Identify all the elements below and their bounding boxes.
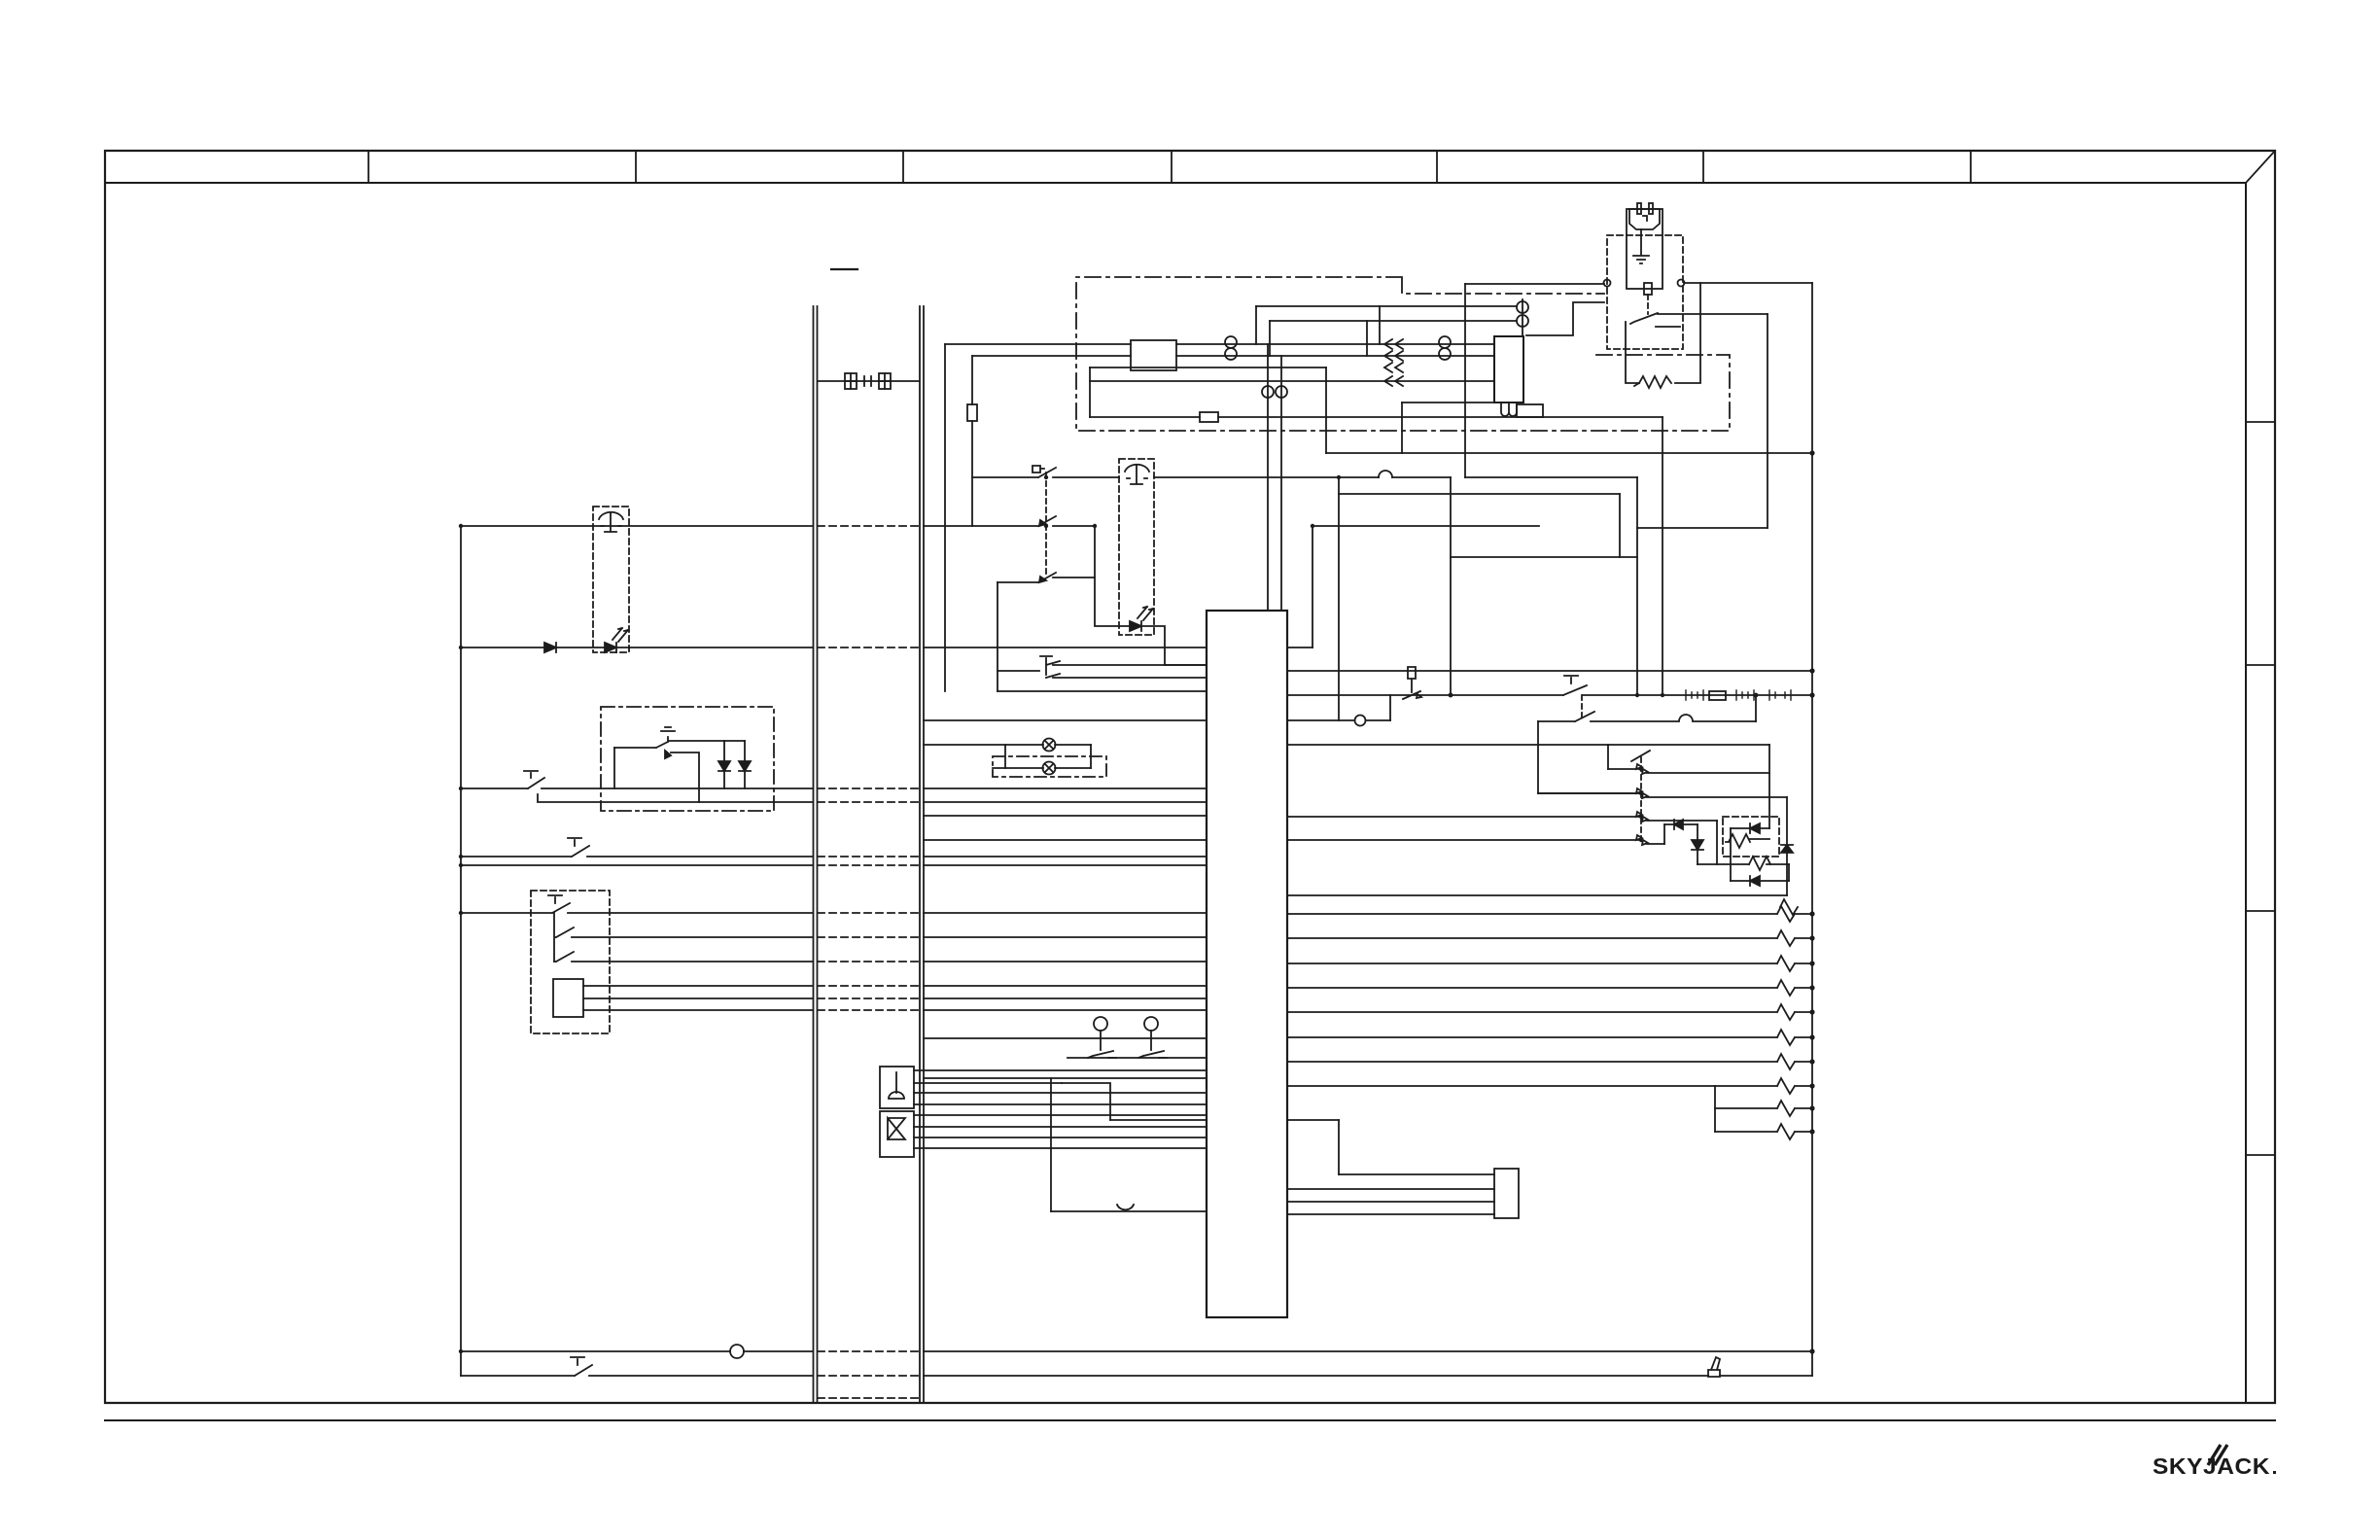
lamp circuit bottom wire [993, 767, 1091, 769]
wire net429 (fused link) [1090, 416, 1662, 418]
wire net1039 right [924, 1009, 1207, 1011]
wire dashed duct crossing y=825 [818, 801, 919, 803]
wire net921 [1287, 894, 1787, 896]
charger terminal block [1517, 404, 1543, 417]
plug prong L [1637, 203, 1641, 214]
brake switch link dashed [1581, 695, 1583, 721]
junction dot net1390 [1809, 1348, 1814, 1353]
header cell divider 5 [1436, 151, 1438, 183]
valve wire y1159 [914, 1126, 1207, 1128]
output wire y=1092 with break [1287, 1054, 1812, 1069]
wire dashed duct crossing y=939 [818, 912, 919, 914]
enable contact pair [997, 656, 1207, 678]
diode D4 (relay box) [739, 741, 751, 788]
output wire y=940 with break [1287, 906, 1812, 922]
header cell divider 2 [635, 151, 637, 183]
wire net989 right [924, 961, 1207, 962]
sensor wire y1124 [914, 1092, 1207, 1094]
riser x1377 from net491 [1338, 477, 1340, 720]
junction dot x1806 net715 [1754, 693, 1759, 698]
wire net466 [1326, 452, 1812, 454]
wire net378 [1090, 367, 1326, 368]
AC inlet feed wire y292 [1465, 283, 1604, 285]
vertical x1364 [1325, 367, 1327, 453]
ground bus (left vertical) [460, 526, 462, 1376]
motor lead y1249 [1287, 1213, 1494, 1215]
vertical feed from duct to logic (x972) [944, 344, 946, 691]
LED D2 arrows [612, 628, 628, 642]
twisted pair mark T4 [1517, 301, 1528, 313]
riser to controller (x1304) [1267, 344, 1269, 611]
wire net1039 left [583, 1009, 813, 1011]
hour meter circle on net1390 [730, 1345, 744, 1358]
wire net811 right [924, 787, 1207, 789]
ladder contact 2 [1538, 788, 1787, 798]
contact arrows [1039, 520, 1046, 582]
interlock contact bar [1656, 326, 1680, 328]
LED D2 in alarm box [605, 643, 616, 652]
wire dashed duct crossing y=964 [818, 936, 919, 938]
joystick enable wire [1067, 1057, 1207, 1059]
connector J2 [879, 373, 891, 389]
vertical x1442 [1401, 402, 1403, 453]
wire net964 right [924, 936, 1207, 938]
wire net491 to riser [1154, 476, 1451, 478]
LED D5 arrows [1137, 607, 1153, 620]
interlock wire y323 [1658, 313, 1767, 315]
wire net690 [1287, 670, 1812, 672]
flow valve bowtie symbol [888, 1118, 905, 1139]
junction dot y=991 [1809, 961, 1814, 965]
inline splice marks [864, 376, 871, 386]
diode D3 (relay box) [718, 741, 730, 788]
tilt sensor circle [1355, 716, 1366, 726]
wire dashed duct crossing y=1438 [818, 1397, 919, 1399]
limit switch LS1 on net811 [461, 771, 813, 788]
header cell divider 4 [1171, 151, 1172, 183]
footer separator rule [105, 1419, 2275, 1421]
riser x1840 [1788, 864, 1790, 881]
wire net839 left [924, 815, 1207, 817]
wire net666 right [924, 647, 1207, 648]
wire net825 left [538, 794, 813, 802]
diode D8 [1731, 823, 1769, 833]
joystick 2 [1144, 1017, 1158, 1031]
wire net573 [1451, 556, 1637, 558]
SKYJACK logo slash [2208, 1445, 2227, 1465]
switch SW3 [554, 952, 813, 962]
wire net1014 left [583, 985, 813, 987]
wire net741 to tilt sensor [1287, 719, 1390, 721]
wire net666 left [461, 647, 813, 648]
wire net939 right [924, 912, 1207, 914]
wire net816 feed [1538, 792, 1641, 794]
junction dot net690 [1809, 668, 1814, 673]
plug feed jog [1526, 302, 1604, 335]
sensor wire y1114 [914, 1082, 1062, 1084]
output wire y=1067 with break [1287, 1030, 1812, 1045]
connector pair C2 [1736, 690, 1754, 700]
control switch box (dashed) [531, 891, 610, 1033]
riser x1492 [1450, 477, 1452, 695]
lamp circuit verticals [1005, 745, 1091, 768]
brake switch lever [1563, 676, 1587, 695]
wire net508 [1339, 493, 1620, 495]
snubber left riser [1730, 828, 1732, 881]
chevrons on harness wires [1384, 339, 1403, 372]
valve wire y1170 [914, 1137, 1207, 1138]
vertical web x1121 [1089, 367, 1091, 417]
wire net1152 right [1287, 1119, 1339, 1121]
junction dot y=1067 [1809, 1034, 1814, 1039]
wire net541 right [1312, 525, 1539, 527]
receptacle fuse element [1644, 283, 1652, 295]
junction dot y=1117 [1809, 1083, 1814, 1088]
wire dashed duct crossing y=541 [818, 525, 919, 527]
wire dashed duct crossing y=1027 [818, 997, 919, 999]
sender unit block [553, 979, 583, 1017]
header cell divider 7 [1970, 151, 1972, 183]
riser x1292 [1255, 306, 1257, 344]
connector pair C1 [1686, 690, 1703, 700]
riser x1081 [1050, 1078, 1052, 1211]
charger AC prongs [1501, 402, 1517, 416]
battery disconnect toggle [1708, 1357, 1720, 1377]
ladder top lever [1631, 751, 1650, 761]
border frame inner right rule [2245, 183, 2247, 1403]
branch output wire y=1164 with break [1715, 1124, 1812, 1139]
heater resistor R1 zigzag [1634, 376, 1671, 388]
diode D1 on net666 [544, 643, 556, 652]
alarm/LED unit box (dashed) [593, 507, 629, 652]
wire net1014 right [924, 985, 1207, 987]
horn symbol in alarm box [599, 512, 623, 532]
battery charger box [1494, 336, 1523, 402]
fuse F1 [967, 404, 977, 421]
wire dashed duct crossing y=666 [818, 647, 919, 648]
platform horn/LED unit box (dashed) [1119, 459, 1154, 635]
header cell divider 1 [367, 151, 369, 183]
wire net766 upper link [1608, 744, 1769, 746]
receptacle terminal circle R [1678, 280, 1685, 287]
wire net741 left [924, 719, 1207, 721]
SKYJACK logo text [2152, 1453, 2276, 1479]
connector J1 [845, 373, 857, 389]
interlock dashed link [1647, 295, 1649, 314]
riser x1306 [1269, 321, 1271, 356]
limit switch LS2 on net881 [461, 838, 813, 857]
charger riser x1566 [1522, 299, 1523, 336]
wire net906 [1731, 876, 1789, 886]
junction dot net466 [1809, 450, 1814, 455]
riser x1818 [1767, 314, 1768, 528]
key switch contact 1 [972, 468, 1119, 477]
wire net644 through LED [1095, 526, 1165, 665]
riser x1684 [1636, 477, 1638, 695]
AC inlet feed riser x1507 [1464, 284, 1466, 477]
wire netW2 (y366) [972, 355, 1494, 357]
resistor R3 zigzag [1749, 857, 1770, 870]
AC plug receptacle outline [1627, 209, 1662, 289]
pressure sensor box [880, 1067, 914, 1108]
wire net1152 left [1110, 1119, 1207, 1121]
NC contact arrow in relay box [665, 751, 671, 758]
motor lead y1223 [1287, 1188, 1494, 1190]
right revision strip divider 4 [2246, 1154, 2275, 1156]
wire net1246 with pickup [1051, 1210, 1207, 1212]
junction dot y=1016 [1809, 985, 1814, 990]
output wire y=1117 with break [1287, 1078, 1812, 1094]
riser x1712 [1663, 824, 1665, 844]
valve wire y1147 [914, 1114, 1207, 1116]
wire dashed duct crossing y=890 [818, 864, 919, 866]
lamp L2 [1043, 762, 1056, 775]
joystick 1 [1094, 1017, 1107, 1031]
junction dot y=1041 [1809, 1009, 1814, 1014]
drop riser x1377 [1338, 1120, 1340, 1174]
receptacle terminal circle L [1604, 280, 1611, 287]
lamp L1 [1043, 739, 1056, 752]
flow valve box [880, 1111, 914, 1157]
main positive bus (x1864) [1811, 283, 1813, 1376]
wire net715 module to switch [1287, 694, 1563, 696]
riser x1654 [1607, 745, 1609, 769]
pothole switch lever [1403, 691, 1421, 699]
wire net1027 left [583, 997, 813, 999]
switch SW1 [461, 895, 813, 913]
interlock switch lever [1630, 313, 1658, 324]
ladder contact 4 [1287, 835, 1664, 845]
wire dashed duct crossing y=1014 [818, 985, 919, 987]
wire dashed duct crossing y=881 [818, 856, 919, 857]
relay ladder link dashed [1640, 757, 1642, 844]
wire netW1 (y354) [945, 343, 1494, 345]
wire net742 right with hop [1591, 715, 1756, 721]
indicator lamp circuit top wire [924, 744, 1091, 746]
junction dot y=1092 [1809, 1059, 1814, 1064]
border frame header bottom rule [105, 182, 2246, 184]
pedal switch on net1415 [461, 1357, 813, 1376]
wire dashed duct crossing y=1415 [818, 1375, 919, 1377]
output wire y=1016 with break [1287, 980, 1812, 996]
resistor R2 zigzag [1726, 834, 1769, 848]
junction dot y=940 [1809, 911, 1814, 916]
wire net315 [1256, 305, 1517, 307]
twisted pair mark T1 [1225, 336, 1237, 348]
header cell divider 6 [1702, 151, 1704, 183]
ladder contact 3 [1287, 812, 1717, 822]
fuse F3 [1709, 691, 1726, 700]
pothole switch actuator on net690 [1408, 667, 1416, 692]
riser x1820 [1768, 745, 1770, 828]
relay box internal wires [614, 741, 745, 802]
border frame corner bevel [2246, 151, 2275, 183]
heater resistor leads [1626, 283, 1700, 383]
duct jumper wire with connectors [818, 380, 919, 382]
key switch actuator square [1032, 466, 1044, 472]
stub label mark 1 [831, 268, 857, 270]
riser x1582 [1537, 721, 1539, 793]
valve wire y1181 [914, 1147, 1207, 1149]
wire net889 [1697, 863, 1789, 865]
wire dashed duct crossing y=811 [818, 787, 919, 789]
wire net541 left [461, 525, 813, 527]
connector pair C3 [1769, 690, 1791, 700]
wire net890 right [924, 864, 1207, 866]
ground symbol [1633, 256, 1649, 263]
main controller module [1207, 611, 1287, 1317]
pair link risers [1367, 306, 1380, 356]
wire net392 with arrows [1090, 380, 1494, 382]
riser x1710 [1662, 417, 1663, 695]
wire net491b [1465, 476, 1637, 478]
wire net1415 right [924, 1375, 1812, 1377]
junction dots left bus [459, 475, 1664, 1353]
changeover switch in relay box [614, 727, 675, 748]
wire net1027 right [924, 997, 1207, 999]
header cell divider 3 [902, 151, 904, 183]
riser x1026 [997, 582, 998, 691]
key switch contact 3 [997, 573, 1095, 582]
diode D6 [1664, 820, 1697, 829]
relay K1 box [1131, 340, 1176, 370]
branch output wire y=1140 with break [1715, 1101, 1812, 1116]
wire net881 right [924, 856, 1207, 857]
plug prong R [1649, 203, 1653, 214]
border frame outer [105, 151, 2275, 1403]
key switch contact 2 [924, 516, 1095, 526]
right revision strip divider 2 [2246, 664, 2275, 666]
riser x1350 [1312, 526, 1313, 647]
junction dot x1492 net715 [1449, 693, 1453, 698]
junction dot y=965 [1809, 935, 1814, 940]
wire net1390 right [924, 1350, 1812, 1352]
double break mark on y940 [1780, 899, 1798, 915]
branch riser x1764 [1714, 1086, 1716, 1132]
motor lead y1208 [1339, 1173, 1494, 1175]
relay module dash-dot box (left) [601, 707, 774, 811]
wire plug to bus y291 [1684, 282, 1812, 284]
junction dot net715 [1809, 692, 1814, 697]
lamp dash-dot box [993, 756, 1106, 777]
vertical fused feed (x1000) [971, 356, 973, 526]
wire net1068 [924, 1037, 1207, 1039]
output wire y=991 with break [1287, 956, 1812, 971]
wire net330 [1270, 320, 1517, 322]
receptacle dashed housing [1607, 235, 1683, 349]
junction dot y=1164 [1809, 1129, 1814, 1134]
key switch link (dashed) [1045, 472, 1047, 577]
LED D5 [1130, 621, 1141, 631]
wire hop on net491 [1379, 471, 1392, 477]
sensor wire y1101 [914, 1069, 1207, 1071]
riser x1746 with diode D7 [1692, 824, 1703, 864]
wire net666 module to riser [1287, 647, 1312, 648]
riser x1430 [1389, 695, 1391, 720]
wire net684 [1165, 664, 1207, 666]
arrow chevrons on net392 [1384, 376, 1403, 386]
wire net715 fused section [1583, 694, 1812, 696]
wire dashed duct crossing y=989 [818, 961, 919, 962]
riser x1838 [1781, 797, 1793, 895]
charger enclosure dash-dot boundary [1076, 277, 1730, 431]
twisted pair mark T3 [1262, 386, 1274, 398]
wire charger bottom link y414 [1402, 402, 1494, 403]
plug pin mark [1643, 216, 1647, 221]
riser to controller (x1318) [1280, 356, 1282, 611]
wire net825 right [924, 801, 1207, 803]
wire net890 left [461, 864, 813, 866]
fuse F2 [1200, 412, 1218, 422]
junction dot y=1140 [1809, 1105, 1814, 1110]
riser x1666 [1619, 494, 1621, 557]
riser x1766 [1716, 821, 1718, 864]
wire net742 left [1538, 712, 1594, 721]
wire dashed duct crossing y=1039 [818, 1009, 919, 1011]
plug earth lead [1640, 229, 1642, 255]
AC plug cap [1629, 209, 1660, 229]
harness duct column A [814, 306, 818, 1403]
wire net766 right [1287, 744, 1608, 746]
motor connector block [1494, 1169, 1519, 1218]
ladder contact 1 [1608, 764, 1769, 774]
switch SW2 [554, 913, 813, 962]
riser x1142 [1062, 1083, 1110, 1120]
right revision strip divider 3 [2246, 910, 2275, 912]
riser x1806 (715 to 742) [1755, 695, 1757, 721]
pickup sensor symbol [1117, 1205, 1134, 1209]
motor lead y1236 [1287, 1201, 1494, 1203]
pressure sensor symbol [889, 1072, 904, 1099]
horn symbol 2 [1125, 465, 1149, 484]
wire y543 [1637, 527, 1767, 529]
wire net864 left [924, 839, 1207, 841]
wire dashed duct crossing y=1390 [818, 1350, 919, 1352]
wire net1390 left [461, 1350, 813, 1352]
snubber dashed box [1723, 817, 1779, 857]
twisted pair mark T2 [1439, 336, 1451, 348]
output wire y=965 with break [1287, 930, 1812, 946]
wire net1109 [924, 1077, 1207, 1079]
wire net711 [997, 690, 1207, 692]
output wire y=1041 with break [1287, 1004, 1812, 1020]
right revision strip divider 1 [2246, 421, 2275, 423]
sensor wire y1136 [914, 1103, 1207, 1105]
harness duct column B [920, 306, 924, 1403]
